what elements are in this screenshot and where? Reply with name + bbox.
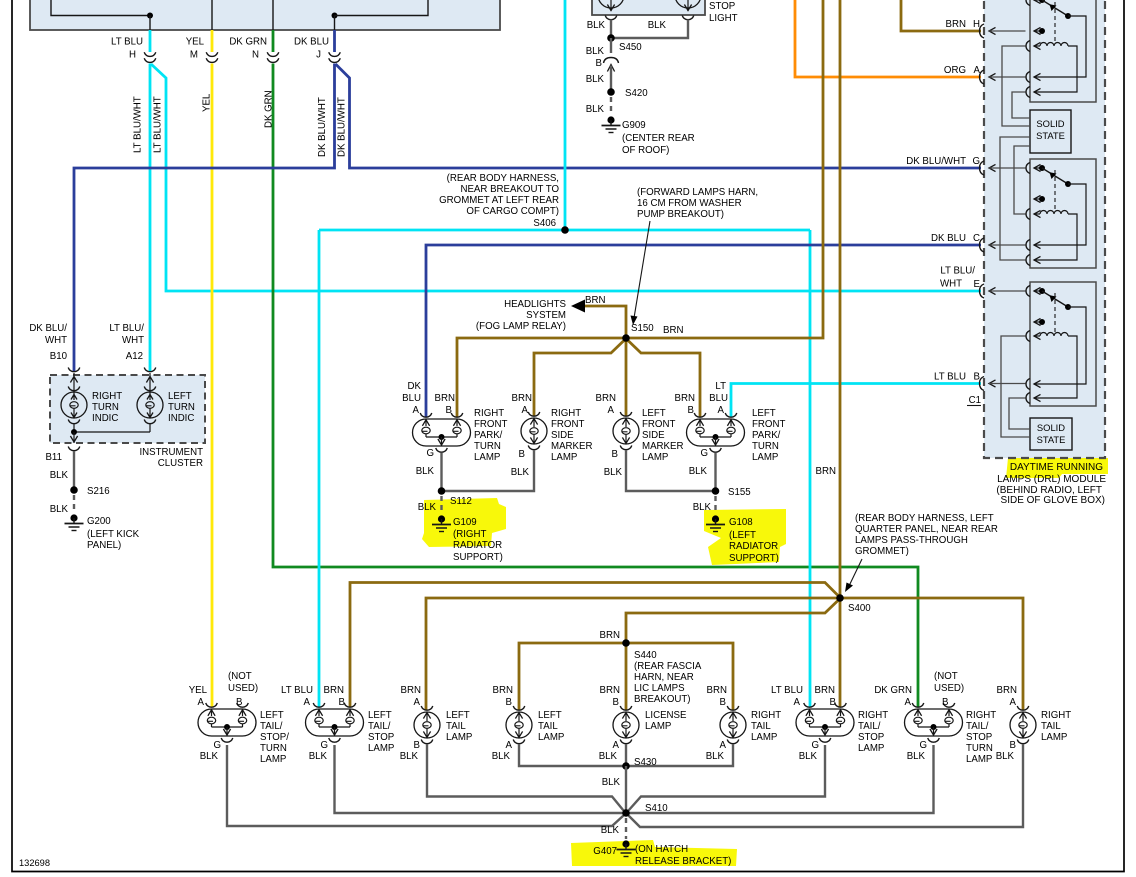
svg-text:RADIATOR: RADIATOR	[729, 541, 778, 552]
svg-text:BLK: BLK	[996, 751, 1015, 762]
lamp LEFT TAIL/STOP LAMP	[306, 703, 364, 742]
svg-text:WHT: WHT	[122, 335, 144, 346]
wire relay K1 coil return to solid state 1	[1012, 92, 1030, 118]
pin label G + BLK	[907, 740, 927, 762]
svg-text:G: G	[700, 448, 708, 459]
connector block (top of page, cut off)	[30, 0, 500, 30]
svg-text:(REAR FASCIA: (REAR FASCIA	[634, 661, 702, 672]
pin label G + BLK	[309, 740, 328, 762]
wire relay K3 coil to solid state 2	[1001, 336, 1030, 437]
svg-text:A: A	[794, 697, 801, 708]
svg-text:STOP: STOP	[858, 732, 884, 743]
svg-text:BRN: BRN	[997, 685, 1017, 696]
pin label A + BLK	[492, 740, 513, 762]
wire relay K1 coil to solid state 1	[1002, 46, 1030, 126]
svg-text:NEAR BREAKOUT TO: NEAR BREAKOUT TO	[460, 184, 559, 195]
svg-text:GROMMET AT LEFT REAR: GROMMET AT LEFT REAR	[439, 195, 559, 206]
splice S420	[607, 88, 648, 99]
svg-text:STOP/: STOP/	[260, 732, 289, 743]
svg-text:A: A	[720, 740, 727, 751]
splice S410	[622, 803, 668, 817]
svg-text:WHT: WHT	[45, 335, 67, 346]
svg-text:H: H	[129, 50, 136, 61]
svg-text:BLK: BLK	[586, 46, 605, 57]
svg-text:WHT: WHT	[940, 279, 962, 290]
svg-text:G: G	[213, 740, 221, 751]
svg-text:LEFT: LEFT	[538, 710, 562, 721]
svg-text:LEFT: LEFT	[168, 391, 192, 402]
wire DK GRN from pin N to RIGHT TAIL/STOP/TURN lamp	[273, 30, 918, 707]
ground G407	[593, 840, 731, 867]
wire BLK right tail/stop G to S410	[629, 745, 826, 811]
pin label G + BLK	[689, 448, 708, 477]
svg-text:BRN: BRN	[435, 393, 455, 404]
svg-text:(FOG LAMP RELAY): (FOG LAMP RELAY)	[476, 321, 566, 332]
svg-text:LT BLU/: LT BLU/	[940, 266, 975, 277]
svg-text:MARKER: MARKER	[551, 441, 592, 452]
svg-text:YEL: YEL	[202, 93, 213, 112]
pin labels BRN A	[401, 685, 421, 708]
svg-text:C1: C1	[969, 395, 981, 406]
svg-text:RIGHT: RIGHT	[966, 710, 996, 721]
pin labels DK GRN A / (NOT USED) B	[874, 671, 964, 708]
wire DK BLU from DRL module pin C to RIGHT FRONT PARK/TURN lamp	[426, 245, 981, 417]
svg-text:B: B	[688, 405, 694, 416]
pin labels BRN A	[997, 685, 1017, 708]
label LEFT TURN INDIC	[168, 391, 195, 424]
relay K3 inside DRL module	[1026, 282, 1096, 406]
svg-text:INSTRUMENT: INSTRUMENT	[139, 447, 203, 458]
wire BLK S450 to connector B	[610, 38, 612, 53]
svg-text:A: A	[608, 405, 615, 416]
wire solid state 1 to relay K2 coil return	[1000, 137, 1030, 260]
DRL module pin H	[946, 19, 1026, 38]
svg-text:BLK: BLK	[586, 104, 605, 115]
DRL module caption	[996, 462, 1106, 506]
solid state driver box 1	[1030, 110, 1071, 153]
splice S112	[438, 487, 472, 507]
svg-text:B: B	[830, 697, 836, 708]
svg-text:A: A	[718, 405, 725, 416]
svg-text:USED): USED)	[934, 683, 964, 694]
label RIGHT TAIL LAMP	[1041, 710, 1071, 743]
wire BLK S430 to S410	[625, 766, 627, 813]
svg-text:GROMMET): GROMMET)	[855, 546, 909, 557]
wire BLK S216 to ground G200 (dashed)	[73, 495, 75, 512]
DRL module pin C	[931, 233, 1026, 252]
svg-text:BRN: BRN	[707, 685, 727, 696]
pin label G + BLK	[416, 448, 435, 477]
svg-text:(NOT: (NOT	[934, 671, 958, 682]
connector pin H	[111, 37, 156, 63]
svg-text:BLK: BLK	[511, 467, 530, 478]
svg-text:TAIL/: TAIL/	[260, 721, 283, 732]
lamp RIGHT TAIL/STOP TURN LAMP	[905, 703, 963, 742]
svg-text:LEFT: LEFT	[752, 408, 776, 419]
svg-text:(NOT: (NOT	[228, 671, 252, 682]
svg-text:G407: G407	[593, 846, 617, 857]
wire BLK right tail lamp (inner) to S430	[626, 744, 733, 766]
svg-text:LAMP: LAMP	[551, 452, 577, 463]
svg-text:LAMP: LAMP	[645, 721, 671, 732]
svg-text:LICENSE: LICENSE	[645, 710, 687, 721]
note HEADLIGHTS SYSTEM (FOG LAMP RELAY)	[476, 299, 567, 332]
label LEFT TAIL LAMP	[446, 710, 472, 743]
DRL module pin E	[974, 279, 1026, 298]
splice S450	[607, 34, 642, 53]
svg-text:BRN: BRN	[600, 630, 620, 641]
svg-text:RIGHT: RIGHT	[858, 710, 888, 721]
svg-text:LAMP: LAMP	[642, 452, 668, 463]
svg-text:BLK: BLK	[492, 751, 511, 762]
svg-text:BRN: BRN	[675, 393, 695, 404]
svg-text:BLK: BLK	[400, 751, 419, 762]
svg-text:LAMP: LAMP	[751, 732, 777, 743]
svg-text:LIC LAMPS: LIC LAMPS	[634, 683, 685, 694]
svg-text:RADIATOR: RADIATOR	[453, 540, 502, 551]
svg-text:STOP: STOP	[709, 1, 735, 12]
wire BLK connector B to S420	[610, 66, 612, 93]
daytime running lamps (DRL) module body	[984, 0, 1105, 458]
svg-text:RELEASE BRACKET): RELEASE BRACKET)	[635, 856, 731, 867]
svg-text:H: H	[973, 19, 980, 30]
label INSTRUMENT CLUSTER	[139, 447, 203, 469]
wire BLK stop light left to S450	[610, 20, 612, 39]
svg-text:MARKER: MARKER	[642, 441, 683, 452]
label S440 with location note	[634, 650, 702, 705]
stop light assembly (cut off at top)	[592, 0, 738, 24]
pin labels BRN A (left marker)	[596, 393, 616, 416]
svg-text:S216: S216	[87, 486, 110, 497]
svg-text:16 CM FROM WASHER: 16 CM FROM WASHER	[637, 198, 742, 209]
svg-text:A: A	[613, 740, 620, 751]
svg-text:PARK/: PARK/	[474, 430, 503, 441]
svg-text:BRN: BRN	[596, 393, 616, 404]
svg-text:TAIL/: TAIL/	[966, 721, 989, 732]
label LEFT TAIL LAMP	[538, 710, 564, 743]
label LICENSE LAMP	[645, 710, 687, 732]
svg-text:BLK: BLK	[601, 825, 620, 836]
splice S216	[70, 486, 109, 497]
svg-text:N: N	[252, 50, 259, 61]
DRL module pin A	[944, 65, 1026, 84]
splice S400	[836, 594, 871, 614]
connector pin J	[294, 37, 340, 63]
svg-text:(RIGHT: (RIGHT	[453, 529, 486, 540]
svg-text:G200: G200	[87, 516, 111, 527]
svg-text:LT BLU: LT BLU	[281, 685, 313, 696]
svg-text:SOLID: SOLID	[1037, 422, 1065, 433]
svg-text:S440: S440	[634, 650, 657, 661]
svg-text:LAMP: LAMP	[260, 754, 286, 765]
svg-text:BLK: BLK	[602, 777, 621, 788]
note for splice S406	[439, 173, 559, 217]
lamp RIGHT FRONT PARK/TURN LAMP	[413, 413, 471, 452]
lamp LEFT FRONT PARK/TURN LAMP	[687, 413, 745, 452]
pin labels BRN B	[493, 685, 513, 708]
svg-text:BLK: BLK	[418, 502, 437, 513]
svg-text:DK BLU: DK BLU	[931, 233, 966, 244]
svg-text:LAMP: LAMP	[368, 743, 394, 754]
svg-text:A: A	[413, 405, 420, 416]
svg-text:LT: LT	[715, 381, 726, 392]
lamp LEFT TAIL/STOP/TURN LAMP	[198, 703, 256, 742]
svg-text:HEADLIGHTS: HEADLIGHTS	[504, 299, 566, 310]
svg-text:PARK/: PARK/	[752, 430, 781, 441]
svg-text:DAYTIME RUNNING: DAYTIME RUNNING	[1010, 462, 1103, 473]
DRL module pin G	[906, 156, 1025, 175]
svg-text:FRONT: FRONT	[551, 419, 584, 430]
svg-text:LT BLU: LT BLU	[934, 372, 966, 383]
wire LT BLU / LT BLU-WHT from pin H to instrument cluster A12	[149, 30, 152, 371]
wire YEL from pin M to LEFT TAIL/STOP/TURN lamp	[211, 30, 214, 707]
svg-text:LEFT: LEFT	[642, 408, 666, 419]
svg-text:STATE: STATE	[1037, 434, 1066, 445]
lamp RIGHT TAIL LAMP (inner)	[720, 706, 746, 744]
svg-text:TURN: TURN	[752, 441, 779, 452]
svg-text:QUARTER PANEL, NEAR REAR: QUARTER PANEL, NEAR REAR	[855, 524, 998, 535]
svg-text:DK GRN: DK GRN	[264, 90, 275, 128]
svg-text:HARN, NEAR: HARN, NEAR	[634, 672, 694, 683]
wire BLK stop light right to S450	[611, 20, 688, 39]
svg-text:LAMPS PASS-THROUGH: LAMPS PASS-THROUGH	[855, 535, 968, 546]
svg-text:B: B	[720, 697, 726, 708]
svg-text:SYSTEM: SYSTEM	[526, 310, 566, 321]
svg-text:DK GRN: DK GRN	[874, 685, 912, 696]
connector B (in-line)	[596, 58, 619, 72]
svg-text:B: B	[236, 697, 242, 708]
svg-text:BLK: BLK	[693, 502, 712, 513]
wire solid state 1 to relay K2 coil	[1014, 146, 1030, 214]
wire BLK cluster B11 to S216	[73, 451, 75, 490]
svg-text:B: B	[446, 405, 452, 416]
wire BRN from top of page to splice S400 and rear lamps	[350, 0, 1023, 710]
wire BLK S112 to ground G109 (dashed)	[440, 496, 442, 513]
svg-text:BLK: BLK	[604, 467, 623, 478]
svg-text:(CENTER REAR: (CENTER REAR	[622, 133, 695, 144]
svg-text:TURN: TURN	[92, 402, 119, 413]
svg-text:SUPPORT): SUPPORT)	[729, 553, 779, 564]
svg-text:BLK: BLK	[50, 470, 69, 481]
svg-text:TAIL/: TAIL/	[858, 721, 881, 732]
ground G909	[602, 116, 695, 156]
svg-text:B: B	[596, 58, 602, 69]
highlight G407	[571, 840, 737, 866]
svg-text:S150: S150	[631, 323, 654, 334]
svg-text:ORG: ORG	[944, 65, 966, 76]
cluster pin A12	[126, 351, 156, 372]
svg-text:TURN: TURN	[260, 743, 287, 754]
wire BLK S410 to ground G407 (dashed)	[625, 818, 627, 839]
pin labels YEL A / (NOT USED) B	[189, 671, 258, 708]
svg-text:S112: S112	[450, 496, 472, 507]
svg-text:FRONT: FRONT	[752, 419, 785, 430]
svg-text:RIGHT: RIGHT	[1041, 710, 1071, 721]
relay K1 inside DRL module	[1026, 0, 1096, 102]
svg-text:LEFT: LEFT	[368, 710, 392, 721]
wire BLK left tail/stop G to S410	[335, 745, 627, 813]
svg-text:BLU: BLU	[402, 393, 421, 404]
cluster pin B10	[50, 351, 80, 372]
svg-text:A: A	[506, 740, 513, 751]
svg-text:S406: S406	[533, 218, 556, 229]
lamp RIGHT FRONT SIDE MARKER LAMP	[521, 412, 547, 450]
pin label G + BLK	[799, 740, 819, 762]
pin labels BRN B	[707, 685, 727, 708]
pin labels LT BLU A / BRN B	[281, 685, 345, 708]
pin label G + BLK	[200, 740, 221, 762]
svg-text:DK GRN: DK GRN	[229, 37, 267, 48]
pin labels BRN B / LT BLU A (left park lamp)	[675, 381, 728, 416]
svg-text:CLUSTER: CLUSTER	[158, 458, 203, 469]
svg-text:LAMPS (DRL) MODULE: LAMPS (DRL) MODULE	[997, 474, 1106, 485]
label RIGHT FRONT PARK/TURN LAMP	[474, 408, 507, 463]
svg-text:RIGHT: RIGHT	[474, 408, 504, 419]
svg-text:BRN: BRN	[585, 295, 605, 306]
svg-text:BRN: BRN	[663, 325, 683, 336]
svg-text:FRONT: FRONT	[474, 419, 507, 430]
svg-text:LEFT: LEFT	[446, 710, 470, 721]
wire BLK S155 to ground G108 (dashed)	[714, 496, 716, 513]
lamp LEFT TURN INDIC	[137, 373, 163, 432]
connector pin N	[229, 37, 278, 63]
svg-text:TAIL: TAIL	[1041, 721, 1061, 732]
wire ORG from top of page to DRL module pin A	[795, 0, 981, 77]
svg-text:(REAR BODY HARNESS, LEFT: (REAR BODY HARNESS, LEFT	[855, 513, 994, 524]
ground G109	[432, 515, 503, 563]
svg-text:TAIL: TAIL	[538, 721, 558, 732]
svg-text:INDIC: INDIC	[168, 413, 194, 424]
svg-text:B: B	[1010, 740, 1016, 751]
pin label A + BLK	[599, 740, 620, 762]
svg-text:BLK: BLK	[587, 20, 606, 31]
svg-text:SIDE: SIDE	[551, 430, 574, 441]
svg-text:BLK: BLK	[907, 751, 926, 762]
svg-text:BRN: BRN	[815, 685, 835, 696]
svg-text:LAMP: LAMP	[966, 754, 992, 765]
ground G108	[706, 515, 779, 564]
label RIGHT TAIL LAMP	[751, 710, 781, 743]
label RIGHT TURN INDIC	[92, 391, 122, 424]
lamp RIGHT TAIL LAMP (outer)	[1010, 706, 1036, 744]
wire BLK right park lamp G to splice S112	[440, 453, 442, 492]
label RIGHT TAIL/STOP TURN LAMP	[966, 710, 996, 765]
arrow to HEADLIGHTS SYSTEM	[571, 300, 585, 313]
wire BLK left marker to S155	[626, 450, 716, 491]
svg-text:S400: S400	[848, 603, 871, 614]
pin label B + BLK	[996, 740, 1016, 762]
svg-text:BREAKOUT): BREAKOUT)	[634, 694, 691, 705]
pin label A + BLK	[706, 740, 727, 762]
svg-text:STOP: STOP	[966, 732, 992, 743]
svg-text:OF CARGO COMPT): OF CARGO COMPT)	[466, 206, 559, 217]
svg-text:BLK: BLK	[416, 466, 435, 477]
svg-text:BRN: BRN	[324, 685, 344, 696]
svg-text:BRN: BRN	[600, 685, 620, 696]
svg-text:B: B	[414, 740, 420, 751]
svg-text:A: A	[522, 405, 529, 416]
svg-text:LAMP: LAMP	[446, 732, 472, 743]
svg-text:(REAR BODY HARNESS,: (REAR BODY HARNESS,	[447, 173, 559, 184]
cluster pin B11	[45, 447, 79, 464]
wire BRN from top of page to DRL module pin H	[901, 0, 981, 31]
lamp RIGHT TAIL/STOP LAMP	[796, 703, 854, 742]
svg-text:BLK: BLK	[599, 751, 618, 762]
svg-text:BLK: BLK	[586, 74, 605, 85]
svg-text:SUPPORT): SUPPORT)	[453, 552, 503, 563]
svg-text:INDIC: INDIC	[92, 413, 118, 424]
svg-text:LT BLU: LT BLU	[111, 37, 143, 48]
svg-text:BRN: BRN	[946, 19, 966, 30]
wire DK BLU/WHT branch from pin J to DRL module pin G	[336, 64, 982, 168]
pin label B + BLK	[511, 449, 530, 478]
svg-text:C: C	[973, 233, 980, 244]
svg-text:BLK: BLK	[200, 751, 219, 762]
DRL module pin B	[934, 372, 1025, 391]
svg-text:G: G	[919, 740, 927, 751]
label RIGHT TAIL/STOP LAMP	[858, 710, 888, 754]
svg-text:RIGHT: RIGHT	[551, 408, 581, 419]
connector pin M	[186, 37, 218, 63]
svg-text:A: A	[905, 697, 912, 708]
svg-text:G: G	[972, 156, 980, 167]
svg-text:BLK: BLK	[799, 751, 818, 762]
lamp LEFT TAIL LAMP (outer)	[506, 706, 532, 744]
wire LT BLU from DRL module pin B to LEFT FRONT PARK/TURN lamp	[731, 384, 981, 417]
svg-text:G909: G909	[622, 120, 646, 131]
svg-text:A: A	[304, 697, 311, 708]
svg-text:DK BLU/WHT: DK BLU/WHT	[337, 97, 348, 157]
svg-text:TURN: TURN	[474, 441, 501, 452]
svg-text:PANEL): PANEL)	[87, 540, 121, 551]
wire BLK right tail lamp (outer) to S410	[629, 744, 1024, 827]
wire LT BLU from top of page through splice S406 to tail lamps	[319, 0, 810, 707]
splice S440 and branches to license/tail lamps	[519, 639, 733, 709]
svg-text:BRN: BRN	[816, 466, 836, 477]
svg-text:M: M	[190, 50, 198, 61]
svg-text:(LEFT: (LEFT	[729, 530, 756, 541]
svg-text:TAIL: TAIL	[446, 721, 466, 732]
svg-text:DK BLU/: DK BLU/	[29, 323, 67, 334]
svg-text:B: B	[942, 697, 948, 708]
svg-text:S420: S420	[625, 88, 648, 99]
label LEFT FRONT PARK/TURN LAMP	[752, 408, 785, 463]
svg-text:A: A	[198, 697, 205, 708]
svg-text:B: B	[613, 697, 619, 708]
splice S406	[533, 218, 568, 234]
svg-text:DK BLU/WHT: DK BLU/WHT	[317, 97, 328, 157]
wire BLK left park lamp G to splice S155	[714, 453, 716, 492]
svg-text:DK: DK	[408, 381, 422, 392]
svg-text:LAMP: LAMP	[858, 743, 884, 754]
splice S150	[622, 323, 654, 342]
svg-text:A: A	[974, 65, 981, 76]
svg-text:S450: S450	[619, 42, 642, 53]
svg-text:LT BLU/WHT: LT BLU/WHT	[153, 96, 164, 153]
svg-text:B10: B10	[50, 351, 68, 362]
relay K2 inside DRL module	[1026, 159, 1096, 268]
svg-text:DK BLU/WHT: DK BLU/WHT	[906, 156, 966, 167]
pin labels LT BLU A / BRN B	[771, 685, 836, 708]
svg-text:BLU: BLU	[709, 393, 728, 404]
svg-text:B: B	[506, 697, 512, 708]
svg-text:LAMP: LAMP	[752, 452, 778, 463]
highlight DRL module caption	[1006, 452, 1108, 479]
svg-text:B: B	[519, 449, 525, 460]
connector label C1	[967, 395, 981, 406]
svg-text:LT BLU: LT BLU	[771, 685, 803, 696]
svg-text:S410: S410	[645, 803, 668, 814]
